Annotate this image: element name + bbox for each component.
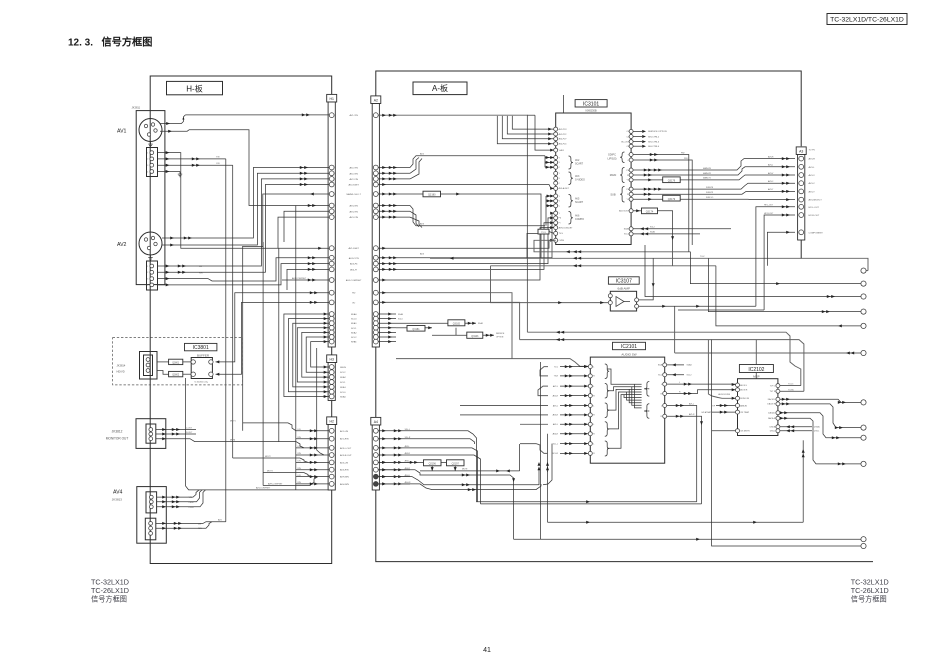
output terminal 539 xyxy=(861,537,866,542)
svg-text:信号方框图: 信号方框图 xyxy=(851,595,887,604)
svg-text:SCL2: SCL2 xyxy=(650,227,655,229)
wire long vertical video bus 4 xyxy=(295,206,297,490)
wire A2 I2C stubs xyxy=(378,313,396,315)
svg-text:DACM R: DACM R xyxy=(767,403,775,406)
wire HD run xyxy=(378,293,512,359)
svg-text:SCL0: SCL0 xyxy=(351,319,357,321)
wire AV3 bundle rows xyxy=(378,205,410,207)
transistor Q3801 xyxy=(169,359,183,364)
AV2 ground xyxy=(150,255,152,258)
wire staircase AV2 to H1 AV2 rows xyxy=(196,168,329,239)
transistor Q3174 on AV2-VOUT xyxy=(633,210,642,212)
IC3101 label box xyxy=(575,100,607,107)
transistor Q3802 xyxy=(169,371,183,376)
svg-text:AV1-L: AV1-L xyxy=(689,402,694,405)
svg-text:HP-L-OUT: HP-L-OUT xyxy=(809,207,820,209)
svg-text:OPTION: OPTION xyxy=(496,336,504,338)
IC3101 control outputs xyxy=(633,130,642,132)
wire bus line TV out A xyxy=(534,240,690,252)
svg-text:MOY2: MOY2 xyxy=(265,456,272,458)
svg-text:HD: HD xyxy=(352,293,356,295)
svg-text:AV4-Pb: AV4-Pb xyxy=(350,263,358,266)
svg-text:AUDIO/CVBS: AUDIO/CVBS xyxy=(718,393,730,396)
wire vertical mute up xyxy=(538,468,540,470)
IC2102 left pins xyxy=(736,383,751,433)
svg-text:R-OUT: R-OUT xyxy=(186,432,193,434)
wire H1 LOGO row into H board xyxy=(242,194,329,247)
svg-text:AV3-L: AV3-L xyxy=(809,166,816,169)
wire IC3101 SCL2 xyxy=(633,233,700,235)
wire AV4 compset vertical xyxy=(186,378,329,490)
svg-text:To 32LX1D only: To 32LX1D only xyxy=(194,382,207,384)
svg-text:1: 1 xyxy=(147,266,148,268)
svg-text:1: 1 xyxy=(147,152,148,154)
wire AV4 component rows to AV6 pins xyxy=(378,213,554,258)
wire monitor bus MOY3 xyxy=(263,473,312,477)
wire Q2196 Q2197 stubs down xyxy=(431,466,433,471)
svg-text:JK3814: JK3814 xyxy=(117,364,126,368)
svg-text:SCL1: SCL1 xyxy=(351,328,357,330)
svg-text:SDA: SDA xyxy=(658,364,663,367)
svg-text:IC2102: IC2102 xyxy=(748,367,764,373)
svg-text:AV4-COMPSET: AV4-COMPSET xyxy=(256,487,271,490)
svg-text:JK3811: JK3811 xyxy=(132,105,141,109)
svg-text:AV3-C: AV3-C xyxy=(809,182,816,185)
wire HP L to A3 xyxy=(756,207,795,306)
wire AV2 header out 4 xyxy=(158,284,206,286)
output terminal 427 xyxy=(861,425,866,430)
wire AV2 C out xyxy=(162,244,188,246)
connector AV4 JK3813 outer box xyxy=(137,487,167,544)
svg-text:2: 2 xyxy=(147,159,148,161)
wire AV2 Y out xyxy=(162,237,196,239)
wire long run y546 xyxy=(712,340,861,546)
wire AV4 Pb xyxy=(157,501,187,503)
wire A4 rows 1-2 to corner xyxy=(410,431,477,447)
svg-text:HP-L-OUT: HP-L-OUT xyxy=(764,205,774,207)
connector JK3811 outer box xyxy=(136,111,165,285)
wire long vertical video bus 1 xyxy=(225,159,227,522)
svg-text:Q3179: Q3179 xyxy=(668,179,676,182)
wire SDIPC C out xyxy=(633,160,692,171)
svg-text:AV1-R/N: AV1-R/N xyxy=(340,438,349,441)
small TV-V box xyxy=(538,229,549,234)
wire long vertical video bus 5 xyxy=(242,247,244,431)
svg-text:SDA0: SDA0 xyxy=(398,313,403,316)
svg-text:L-OUT: L-OUT xyxy=(186,428,193,430)
svg-text:AUDIO SW: AUDIO SW xyxy=(621,352,636,356)
svg-text:SCL2: SCL2 xyxy=(351,337,357,339)
connector JK3812 MONITOR OUT xyxy=(136,419,166,449)
svg-text:TV-L: TV-L xyxy=(554,366,558,368)
wire output chain 2 y283 xyxy=(690,252,861,284)
svg-text:SCL-L: SCL-L xyxy=(553,443,558,445)
wire AV4 audio R xyxy=(156,527,196,529)
svg-text:SELCTRL2: SELCTRL2 xyxy=(648,136,660,138)
svg-text:SDA2: SDA2 xyxy=(624,228,630,231)
svg-text:AV2-P22: AV2-P22 xyxy=(559,133,568,136)
svg-text:AV3-C: AV3-C xyxy=(768,180,774,183)
svg-text:AV3-R: AV3-R xyxy=(768,155,774,158)
connector strip H2 xyxy=(327,417,337,425)
wire output chain 3 y296 xyxy=(645,245,861,297)
svg-text:HD/VD: HD/VD xyxy=(117,370,125,374)
svg-text:AV IN R: AV IN R xyxy=(740,389,748,392)
svg-text:SDA2: SDA2 xyxy=(340,376,346,379)
A board edge connector segments xyxy=(375,347,377,417)
svg-text:JK3813: JK3813 xyxy=(112,497,123,501)
wire AV4 audio bundle up to run xyxy=(196,522,226,524)
wire Q3801 to buffer xyxy=(183,361,191,363)
svg-text:VD: VD xyxy=(352,302,355,304)
transistor Q3182 on I2C xyxy=(448,320,465,326)
svg-text:TV-V: TV-V xyxy=(541,232,546,234)
svg-text:SUB-PR: SUB-PR xyxy=(706,192,714,194)
wire AV2 bundle into SCART pins xyxy=(544,156,546,167)
svg-text:PB3: PB3 xyxy=(684,158,688,160)
output terminal 402 xyxy=(861,400,866,405)
wire AV2 header out 1 xyxy=(158,265,197,267)
svg-text:AV3-SELECT: AV3-SELECT xyxy=(809,199,823,202)
connector strip H1 xyxy=(327,94,337,102)
svg-text:A4: A4 xyxy=(374,420,378,424)
wire A4 row 6 run xyxy=(378,470,513,540)
svg-text:Q3802: Q3802 xyxy=(172,375,180,377)
svg-text:AV3-V: AV3-V xyxy=(768,172,774,175)
svg-text:S-VIDEO: S-VIDEO xyxy=(575,179,585,182)
svg-text:12. 3.: 12. 3. xyxy=(68,38,93,49)
svg-text:SDA2: SDA2 xyxy=(687,364,693,367)
svg-text:Y-AV1: Y-AV1 xyxy=(559,149,565,152)
svg-text:ANA IN: ANA IN xyxy=(740,404,747,407)
wire long run y503 xyxy=(481,503,702,505)
wire HP R feed xyxy=(678,309,764,311)
svg-text:IC3107: IC3107 xyxy=(616,279,632,285)
connector strip A2 xyxy=(371,96,381,104)
svg-text:NX8230B: NX8230B xyxy=(586,108,597,112)
svg-text:AV2-CIN: AV2-CIN xyxy=(349,178,358,181)
svg-text:AV3-CIN: AV3-CIN xyxy=(349,216,358,219)
wire A4 row 8 run xyxy=(378,484,541,490)
svg-text:TV-V: TV-V xyxy=(700,256,705,258)
svg-text:I2S MSTR: I2S MSTR xyxy=(740,431,750,433)
IC2101 input braces xyxy=(605,364,609,379)
AV1 ground xyxy=(150,142,152,145)
AV4 audio pin header xyxy=(145,518,156,540)
IC2101 output braces xyxy=(645,382,649,397)
svg-text:SELCTRL3: SELCTRL3 xyxy=(648,141,660,143)
wire amp branch down xyxy=(674,306,676,353)
IC2101 left input pins xyxy=(588,365,595,456)
svg-text:AVH-COM-DET: AVH-COM-DET xyxy=(559,226,574,229)
output terminal 283 xyxy=(861,281,866,286)
svg-text:I2F TRAP: I2F TRAP xyxy=(740,411,749,414)
wire AVH compset run xyxy=(263,477,318,486)
svg-text:Y/N: Y/N xyxy=(216,157,220,159)
wire IC3101 top edge connection xyxy=(562,95,564,113)
svg-text:41: 41 xyxy=(483,647,491,654)
svg-text:SCART: SCART xyxy=(575,163,584,166)
svg-text:H-板: H-板 xyxy=(186,83,202,93)
AV1 pin header xyxy=(147,148,158,177)
svg-text:MAIN-PB: MAIN-PB xyxy=(703,167,712,170)
svg-text:MAIN/LOGO-T: MAIN/LOGO-T xyxy=(346,193,361,196)
IC3101 group braces and names xyxy=(569,156,573,169)
wire SUB Pr out xyxy=(633,193,735,195)
wire gray band y358 xyxy=(396,359,588,367)
svg-text:AV3-R: AV3-R xyxy=(553,414,559,417)
svg-text:AV4-CY/N: AV4-CY/N xyxy=(349,257,359,260)
svg-text:信号方框图: 信号方框图 xyxy=(91,595,127,604)
connector strip A3 xyxy=(796,147,806,155)
wire AV1-SSET long run to CVBS pin xyxy=(378,240,554,248)
IC3801 dashed boundary xyxy=(113,338,243,385)
svg-text:AV3-L: AV3-L xyxy=(405,445,410,448)
svg-text:AV3-R-OUT: AV3-R-OUT xyxy=(340,454,352,457)
wire Q3802 to buffer xyxy=(183,373,191,375)
IC3101 video switch body xyxy=(556,113,631,245)
svg-text:AV2-SSET: AV2-SSET xyxy=(348,184,359,187)
svg-text:Pr: Pr xyxy=(559,223,561,225)
IC3801 label box xyxy=(185,343,217,350)
wire JK3814 to Q3801 xyxy=(157,361,169,363)
svg-text:SDL-R: SDL-R xyxy=(405,437,411,439)
wire long run y332 video to audio area xyxy=(527,332,800,385)
svg-text:Pr: Pr xyxy=(627,194,629,196)
wire AV4 Pr xyxy=(157,506,187,508)
wire A4 row 7 run xyxy=(378,470,539,485)
svg-text:2: 2 xyxy=(147,272,148,274)
svg-text:AV4-P24: AV4-P24 xyxy=(559,143,568,146)
svg-text:TV-R: TV-R xyxy=(554,376,559,378)
svg-text:信号方框图: 信号方框图 xyxy=(102,36,153,49)
wire DACA R to output xyxy=(780,418,861,464)
svg-text:AV2-VOUT: AV2-VOUT xyxy=(619,210,630,213)
wire branch Y-AV1 into IC3101 xyxy=(535,115,554,150)
svg-text:LIPS(S): LIPS(S) xyxy=(607,157,616,161)
svg-text:DACM L: DACM L xyxy=(768,398,776,401)
wire mute line xyxy=(420,470,520,472)
svg-text:AV3-L-OUT: AV3-L-OUT xyxy=(340,447,352,450)
wire A4 audio row stubs xyxy=(378,430,410,432)
wire long TV audio vertical xyxy=(540,362,542,539)
IC3801 buffer box xyxy=(191,358,212,379)
wire DACA L to output xyxy=(780,413,861,438)
svg-text:AV3-YIN: AV3-YIN xyxy=(350,210,359,213)
svg-text:SDA0: SDA0 xyxy=(340,396,346,399)
svg-text:Q3103: Q3103 xyxy=(471,335,479,338)
H board outline xyxy=(150,76,332,564)
svg-text:DACA R: DACA R xyxy=(768,417,776,420)
svg-text:MSP: MSP xyxy=(753,375,760,379)
svg-text:4: 4 xyxy=(147,285,148,287)
svg-text:6dB AMP: 6dB AMP xyxy=(618,287,631,291)
wire AV4 audio L xyxy=(156,522,196,524)
wire AV2 header out 3 xyxy=(158,279,266,281)
svg-text:AV3-Y: AV3-Y xyxy=(809,190,816,193)
wire output chain 1 y270 xyxy=(862,270,868,272)
H3 pin labels xyxy=(340,367,346,399)
A3 pin labels xyxy=(809,150,824,235)
AV1 header ground xyxy=(179,172,181,175)
svg-text:MOY3: MOY3 xyxy=(267,470,274,472)
svg-text:Q3180: Q3180 xyxy=(428,194,436,197)
wire bus line B extension right xyxy=(803,258,868,270)
IC2101 right pins xyxy=(658,363,667,418)
wire I2S data xyxy=(780,426,812,428)
wire vertical aux down xyxy=(262,242,264,486)
svg-text:Q3181: Q3181 xyxy=(412,328,420,331)
connector strip A4 xyxy=(371,417,381,425)
svg-text:SDA1: SDA1 xyxy=(340,386,346,389)
svg-text:AV1-SSET: AV1-SSET xyxy=(348,247,359,250)
output terminal 311 xyxy=(861,309,866,314)
wire IC3107 output to headphone xyxy=(639,305,756,307)
wire long run y501 xyxy=(477,447,697,502)
wire monitor bus MONI xyxy=(226,442,304,448)
svg-text:IC3801: IC3801 xyxy=(193,345,209,351)
wire monitor out V xyxy=(156,439,226,442)
wire DACM R to output xyxy=(780,404,861,428)
wire audio feed top rows xyxy=(540,367,548,376)
svg-text:AV3-A-DET: AV3-A-DET xyxy=(559,187,570,190)
wire monitor out R xyxy=(156,433,196,435)
svg-text:H3: H3 xyxy=(330,358,334,362)
wire monitor bus MOY2 xyxy=(233,458,308,462)
wire audio cvbs to MSP mono xyxy=(708,340,735,399)
IC2101 crossbar matrix xyxy=(607,369,641,448)
wire H1 row 280 compset xyxy=(282,279,329,281)
svg-text:SUB-YO: SUB-YO xyxy=(706,197,714,199)
svg-text:HP-R-OUT: HP-R-OUT xyxy=(764,213,774,215)
svg-text:IC3101: IC3101 xyxy=(583,101,599,107)
svg-text:AV3-L: AV3-L xyxy=(768,164,773,167)
svg-text:AV2-L: AV2-L xyxy=(553,385,558,388)
wire IC2101 out R to MSP xyxy=(667,390,736,394)
svg-text:SDA1: SDA1 xyxy=(351,322,357,325)
wire MAIN Pb out xyxy=(633,169,731,171)
transistor Q2196 xyxy=(424,460,442,466)
svg-text:SCL-R: SCL-R xyxy=(552,453,558,455)
wire AV4-COMPSET to AVH-COM-DET pin xyxy=(378,228,554,280)
wire branch into MSP top xyxy=(755,340,757,379)
svg-text:AV IN L: AV IN L xyxy=(740,384,748,387)
svg-text:DACA L: DACA L xyxy=(768,412,776,415)
wire IC3101 detect pins to AV1 line xyxy=(512,116,554,129)
svg-text:SDIPC: SDIPC xyxy=(608,153,616,157)
svg-text:AV4-P2Y: AV4-P2Y xyxy=(559,138,568,141)
output terminal 296 xyxy=(861,294,866,299)
transistor Q2197 xyxy=(447,460,465,466)
IC2102 label box xyxy=(739,365,773,373)
svg-text:HP-R-OUT: HP-R-OUT xyxy=(809,215,820,217)
wire monitor bus MOY1 xyxy=(243,423,296,431)
H board name box H-ban xyxy=(167,81,223,94)
svg-text:TO P5: TO P5 xyxy=(809,150,816,152)
svg-text:AV1-R: AV1-R xyxy=(689,413,695,416)
svg-text:AV3-VIN: AV3-VIN xyxy=(350,205,359,208)
svg-text:3: 3 xyxy=(147,165,148,167)
wire H2 row arrows xyxy=(296,430,329,432)
svg-text:AV4-R/N: AV4-R/N xyxy=(340,469,349,472)
svg-text:I2SDA: I2SDA xyxy=(814,426,820,429)
svg-text:TO-R5: TO-R5 xyxy=(788,390,794,392)
wire A4 row 5 through Q2196 xyxy=(378,461,423,463)
wire long run y339 VD chain xyxy=(520,340,804,392)
wire TVT R up chain xyxy=(780,390,804,392)
svg-text:MONO IN: MONO IN xyxy=(740,398,749,400)
IC2101 audio switch body xyxy=(590,357,664,463)
wire SUB bundle to A3 connector xyxy=(735,183,795,189)
wire vertical 803 from MSP xyxy=(802,440,804,522)
svg-text:SDA2: SDA2 xyxy=(650,231,655,234)
wire AV1 DIN C to 129 run xyxy=(160,130,329,206)
output terminal 325 xyxy=(861,323,866,328)
svg-text:AV4-R: AV4-R xyxy=(553,433,559,436)
svg-text:SDA0: SDA0 xyxy=(351,313,357,316)
svg-text:AV2: AV2 xyxy=(117,242,127,248)
wire SDIPC Y out xyxy=(633,155,689,168)
svg-text:AVH-B/N: AVH-B/N xyxy=(340,476,349,479)
svg-text:A3: A3 xyxy=(799,150,803,154)
svg-text:AV3-L: AV3-L xyxy=(553,404,558,407)
svg-text:AVH-COMPSET: AVH-COMPSET xyxy=(268,482,283,485)
svg-text:SELCTRL4: SELCTRL4 xyxy=(648,146,660,148)
signal labels between H1 and A2 xyxy=(346,114,362,343)
output terminal 353 xyxy=(861,350,866,355)
svg-text:MAIN: MAIN xyxy=(610,173,617,177)
svg-text:SBUS: SBUS xyxy=(340,367,346,369)
wire IC2101 monitor R down xyxy=(667,416,702,504)
wire bus line TV-V B xyxy=(430,257,803,259)
output terminal 270 xyxy=(861,268,866,273)
transistor Q3179 main xyxy=(663,177,681,183)
wire AV2 bundle rows xyxy=(378,167,410,169)
wire AV1 header out 1 xyxy=(158,153,330,249)
wire amp out to right edge xyxy=(675,352,862,354)
wire AV4 Y xyxy=(157,496,187,498)
wire AV3 bundle into AV5 SCART pins xyxy=(545,196,547,226)
svg-text:SCL0: SCL0 xyxy=(398,319,403,321)
svg-text:KPA6: KPA6 xyxy=(351,341,357,344)
svg-text:I2SDA: I2SDA xyxy=(770,426,776,429)
svg-text:AV4-COMPSET: AV4-COMPSET xyxy=(292,277,307,280)
svg-text:3: 3 xyxy=(147,278,148,280)
IC3107 amplifier body xyxy=(610,291,636,311)
svg-text:A2: A2 xyxy=(374,99,378,103)
IC3101 left pins xyxy=(554,127,574,242)
svg-text:AV2-R: AV2-R xyxy=(553,394,559,397)
svg-text:Pr: Pr xyxy=(627,175,629,177)
svg-text:I2SCL: I2SCL xyxy=(770,431,776,433)
wire long run y522 xyxy=(548,521,804,523)
wire SDIPC verticals to A3 xyxy=(688,167,690,252)
svg-text:MONITOR OUT: MONITOR OUT xyxy=(106,437,129,441)
svg-text:SCL2: SCL2 xyxy=(340,372,346,374)
svg-text:CVBS: CVBS xyxy=(559,240,565,242)
wire A4 rows 3-4 bundle down xyxy=(410,448,478,502)
svg-text:SCL0: SCL0 xyxy=(340,392,346,394)
svg-text:SCL2: SCL2 xyxy=(624,234,630,236)
svg-text:AV2-VIN: AV2-VIN xyxy=(350,172,359,175)
wire IC2101 out L to MSP xyxy=(667,383,736,385)
wire long run y539 xyxy=(514,538,861,540)
A board outline xyxy=(376,71,801,146)
wire IC2101 monitor L down xyxy=(667,406,697,502)
IC2102 right pins xyxy=(767,384,779,433)
svg-text:Q3801: Q3801 xyxy=(172,362,180,364)
svg-text:SUB: SUB xyxy=(610,193,616,197)
